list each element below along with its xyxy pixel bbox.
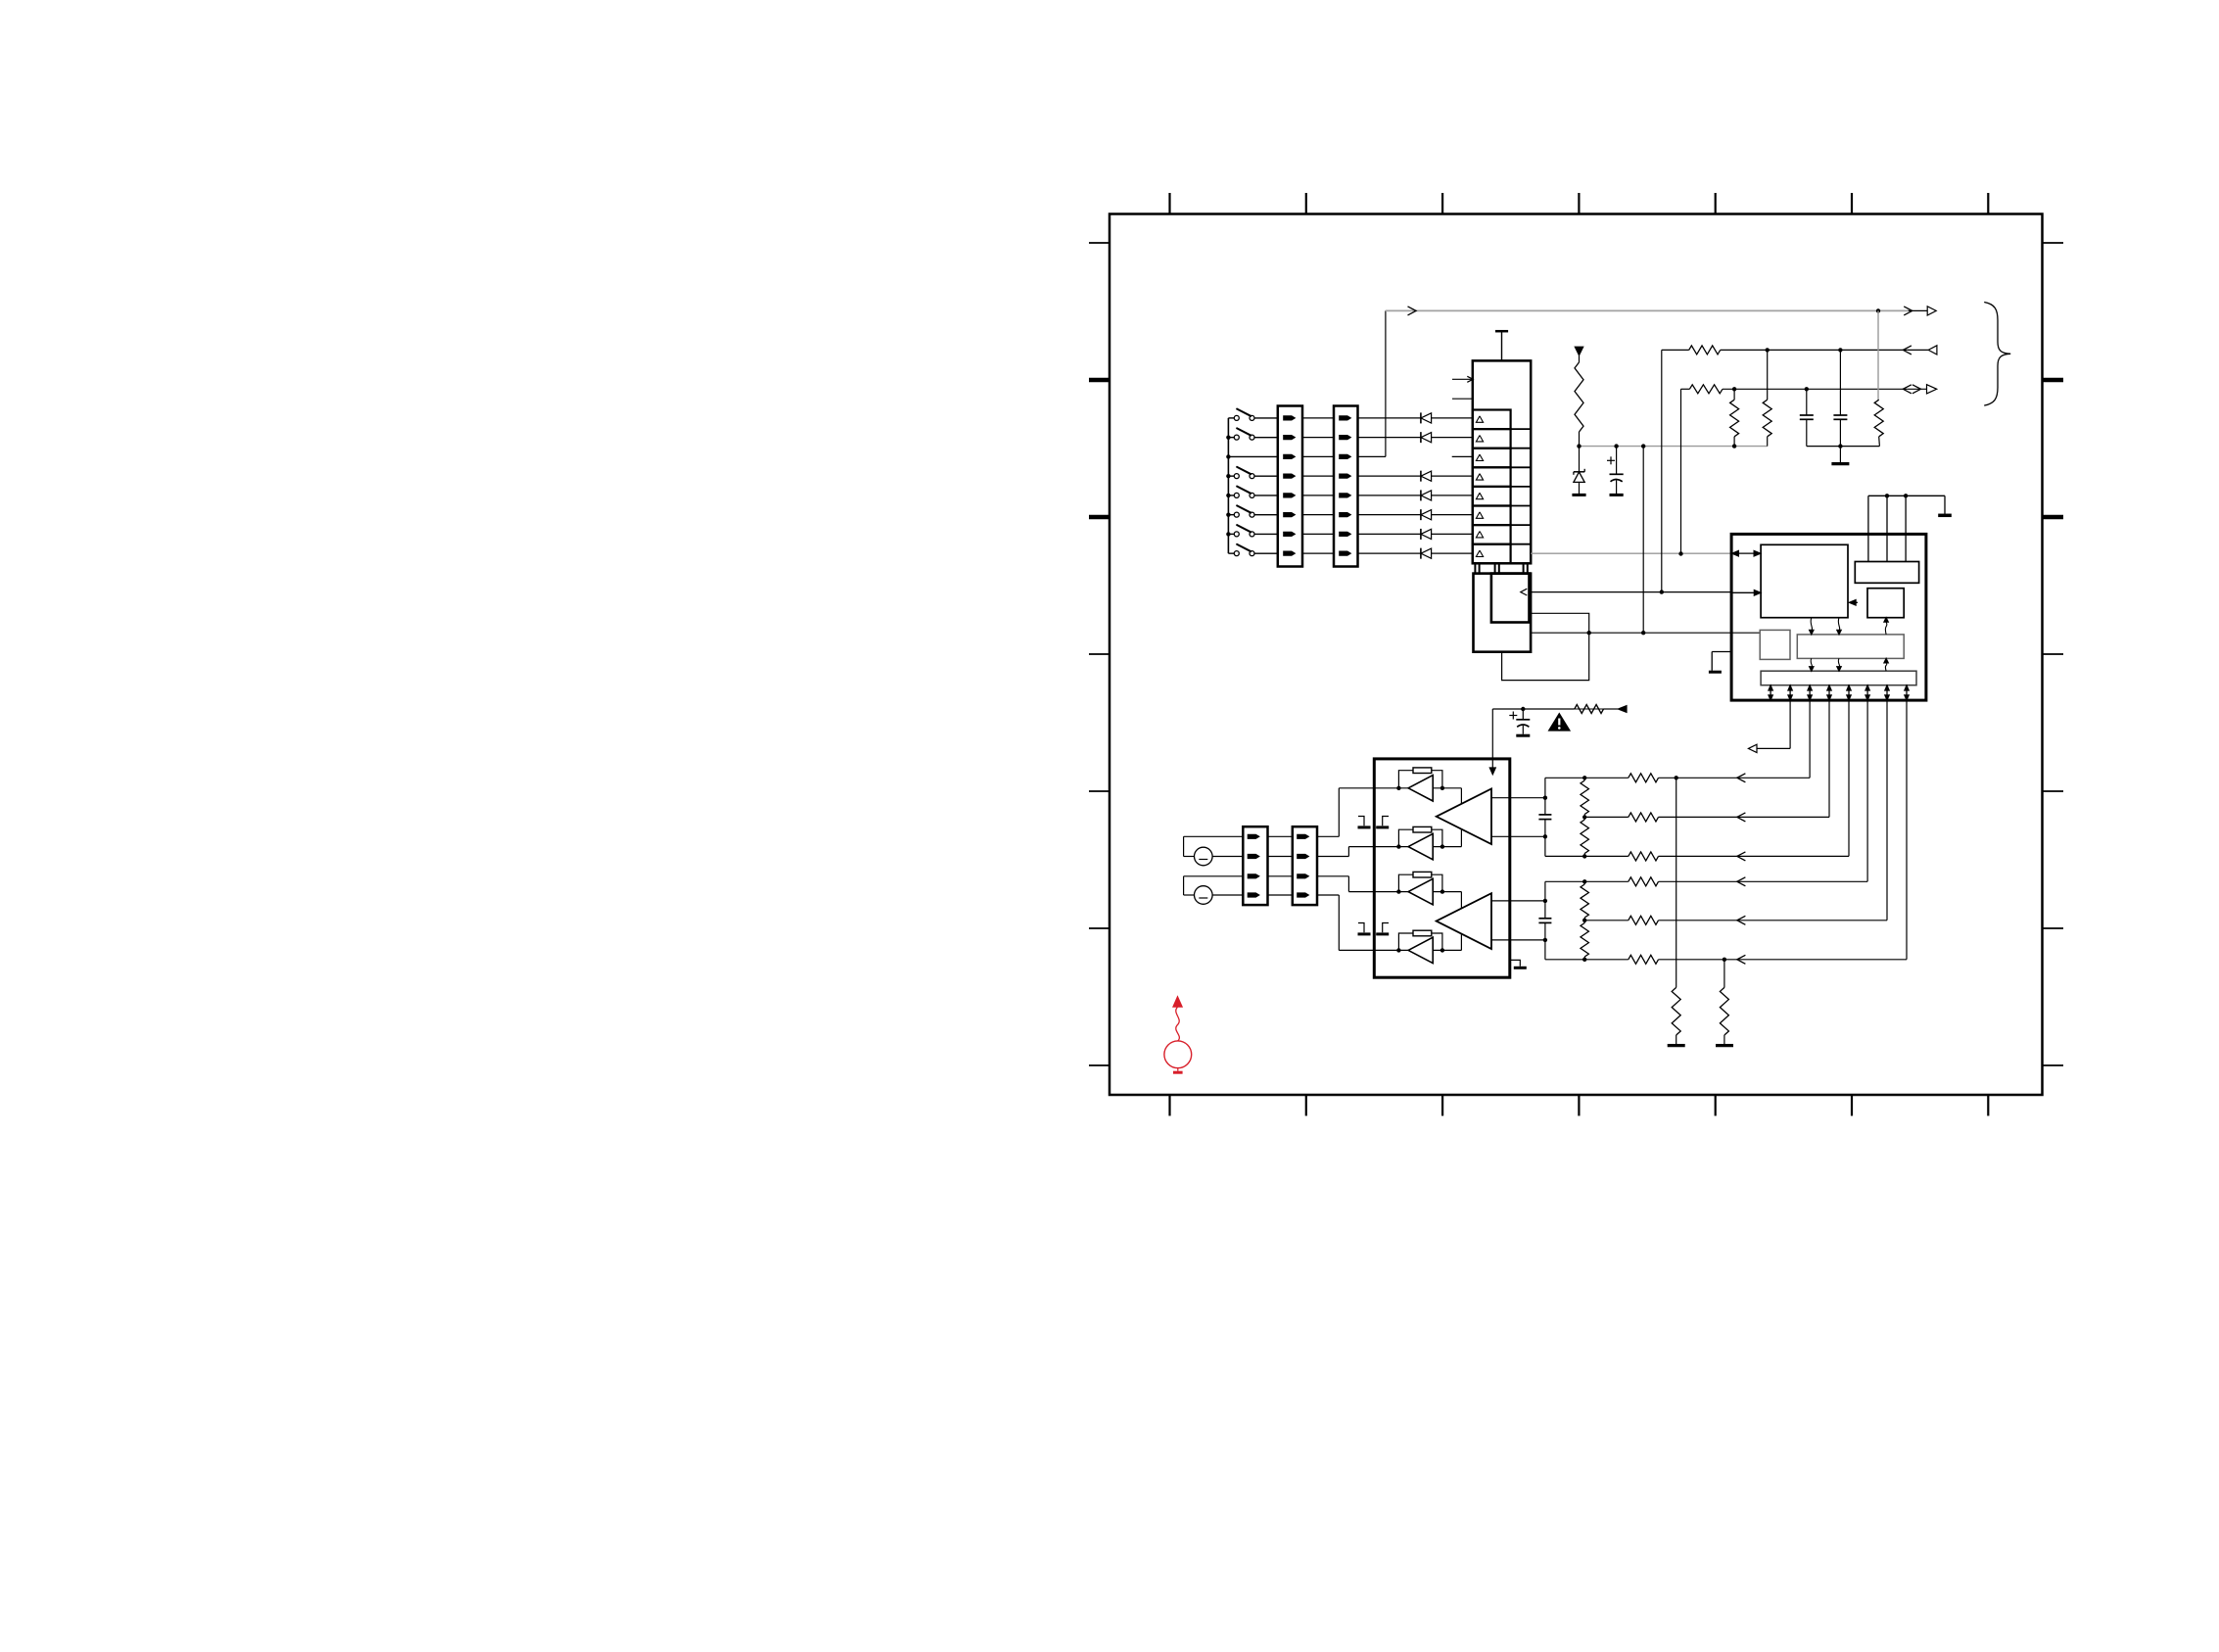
ground for C1 <box>1610 494 1624 496</box>
arrow supply source <box>1618 706 1627 713</box>
ground for D8 <box>1572 494 1585 496</box>
wire port7 drop <box>1886 700 1888 920</box>
wire amp out3 <box>1491 900 1545 902</box>
U3 top register block <box>1855 562 1918 584</box>
wire A1 out <box>1433 787 1461 789</box>
U3 port arrow 4 <box>1828 685 1830 700</box>
resistor R12 <box>1581 820 1588 854</box>
U1 right column cells <box>1510 410 1512 430</box>
resistor R15 <box>1629 774 1659 782</box>
U3 port arrow 1 <box>1770 685 1771 700</box>
brace off-page group <box>1984 303 2010 406</box>
U3 small block <box>1867 589 1904 618</box>
net L1 <box>1545 777 1629 779</box>
wire rc bank right <box>1807 446 1880 448</box>
U1 buffer cell 2 <box>1473 429 1511 448</box>
U1 buffer cell 6 <box>1473 506 1511 526</box>
U2 inner block <box>1491 574 1530 623</box>
U3 bottom block <box>1761 671 1916 685</box>
IC U4 outline <box>1374 759 1510 977</box>
wire row3 bus to connector <box>1228 455 1277 457</box>
IC U2 outline <box>1474 574 1532 652</box>
connector J3 <box>1243 826 1267 905</box>
ground C6 <box>1516 734 1530 737</box>
U1 buffer cell 8 <box>1473 544 1511 564</box>
wire port5 drop <box>1848 700 1850 856</box>
wire port8 drop <box>1906 700 1908 960</box>
connector J1 <box>1278 406 1302 567</box>
U1 buffer cell 3 <box>1473 448 1511 468</box>
resistor R1 <box>1579 355 1581 362</box>
wire port6 drop <box>1866 700 1868 881</box>
VS1 ground <box>1177 1068 1179 1071</box>
switch S5 <box>1228 514 1234 516</box>
wire line2 riser <box>1661 350 1663 591</box>
capacitor C6 <box>1522 709 1524 720</box>
signal ground e <box>1510 960 1521 966</box>
bus junction dots <box>1226 435 1230 439</box>
U1 row3 input stub <box>1452 455 1473 457</box>
wire U2 out C <box>1531 632 1760 634</box>
signal ground b <box>1383 817 1389 826</box>
U3 top pins <box>1867 496 1869 561</box>
U3 port arrow 2 <box>1789 685 1791 700</box>
diode D6 <box>1358 533 1421 535</box>
capacitor C4 <box>1544 778 1546 815</box>
ground R22 <box>1716 1044 1733 1047</box>
op-amp A6 <box>1437 893 1491 949</box>
U3 cpu block <box>1761 544 1848 617</box>
U3 port arrow 5 <box>1848 685 1850 700</box>
wire net riser to line1 <box>1385 310 1387 456</box>
resistor R11 <box>1581 780 1588 815</box>
node B junction <box>1660 590 1664 593</box>
wire A3 out <box>1433 891 1461 893</box>
U1 buffer cell 4 <box>1473 467 1511 487</box>
IC U1 outline <box>1473 360 1531 563</box>
U1 buffer cell 7 <box>1473 525 1511 544</box>
wire U1 row8 to U3 <box>1531 552 1731 554</box>
antenna squiggle <box>1176 1007 1180 1041</box>
U3 arrow cpu-mid a <box>1811 618 1812 631</box>
U3 left block <box>1760 630 1790 659</box>
diode D5 <box>1358 514 1421 516</box>
net L2 <box>1584 816 1629 818</box>
U3 port arrow 3 <box>1809 685 1811 700</box>
node C2 <box>1641 631 1645 635</box>
net L5 <box>1584 920 1629 921</box>
source V1 <box>1195 847 1213 866</box>
diode D3 <box>1358 475 1421 477</box>
signal ground a <box>1358 817 1364 826</box>
resistor R20 <box>1629 955 1659 964</box>
switch S2 <box>1228 437 1234 439</box>
U3 arrow input B <box>1731 591 1755 593</box>
op-amp A2 <box>1408 833 1433 859</box>
signal ground c <box>1358 923 1364 933</box>
ground U3 top <box>1938 514 1952 518</box>
power arrow into R1 <box>1575 347 1582 355</box>
U3 arrow mid-bot a <box>1811 658 1812 667</box>
wire A4 out <box>1433 949 1461 951</box>
wire U3 left ground <box>1712 651 1731 653</box>
net line3 <box>1681 388 1690 390</box>
wire U2 loop <box>1502 613 1589 680</box>
diode D4 <box>1358 495 1421 496</box>
U3 middle block <box>1797 635 1904 659</box>
U3 arrow mid-bot b <box>1838 658 1839 667</box>
signal ground d <box>1383 923 1389 933</box>
resistor R21 <box>1676 778 1677 987</box>
U3 arrow mid-small <box>1885 622 1886 635</box>
capacitor C3 <box>1839 350 1841 415</box>
switch S3 <box>1228 475 1234 477</box>
ground R21 <box>1668 1044 1685 1047</box>
U3 port arrow 7 <box>1886 685 1888 700</box>
connector J4 <box>1293 826 1317 905</box>
net L6 <box>1545 959 1629 961</box>
wire A2 out <box>1433 846 1461 848</box>
resistor R4 <box>1733 389 1735 400</box>
resistor R16 <box>1629 813 1659 822</box>
ground rc bank <box>1839 447 1841 462</box>
resistor R19 <box>1629 916 1659 924</box>
wire port3 drop <box>1809 700 1811 778</box>
source V2 <box>1195 886 1213 905</box>
switch S6 <box>1228 533 1234 535</box>
antenna arrow <box>1173 997 1183 1008</box>
wire amp supply <box>1492 708 1575 710</box>
U3 bidir arrow <box>1738 552 1755 554</box>
resistor R14 <box>1581 923 1588 958</box>
node C1 <box>1587 631 1591 635</box>
resistor R10 <box>1398 933 1413 950</box>
resistor R9 <box>1398 874 1413 891</box>
U1 buffer cell 5 <box>1473 487 1511 506</box>
zener D8 <box>1579 447 1581 472</box>
wire U3 top to ground <box>1868 495 1945 496</box>
capacitor C5 <box>1544 881 1546 919</box>
wire port4 drop <box>1828 700 1830 817</box>
ground U3 left <box>1709 671 1722 674</box>
wire port2 ctrl <box>1789 700 1791 748</box>
U3 port arrow 6 <box>1866 685 1868 700</box>
resistor R13 <box>1581 884 1588 918</box>
wire input route 4 <box>1317 894 1339 896</box>
wire switch input bus <box>1227 418 1229 553</box>
U3 arrow bot-mid <box>1885 662 1886 671</box>
wire amp out4 <box>1491 939 1545 941</box>
resistor R5 <box>1767 350 1769 400</box>
capacitor C2 <box>1806 389 1808 415</box>
power bar above U1 <box>1495 330 1508 333</box>
wire row3 to net stub <box>1358 455 1386 457</box>
U1 buffer cell 1 <box>1473 410 1511 430</box>
warning symbol <box>1549 714 1570 731</box>
resistor R3 <box>1689 385 1723 394</box>
resistor R7 <box>1398 771 1413 788</box>
diode D2 <box>1358 437 1421 439</box>
resistor R22 <box>1723 960 1725 988</box>
net line1 <box>1386 309 1909 311</box>
resistor R6 <box>1877 310 1879 400</box>
resistor R23 <box>1575 705 1604 714</box>
U3 arrow cpu-mid b <box>1838 618 1839 631</box>
op-amp A1 <box>1408 776 1433 801</box>
wire vref rail <box>1580 446 1768 448</box>
wire line3 riser <box>1680 389 1682 553</box>
capacitor C1 <box>1616 447 1618 475</box>
U3 port arrow 8 <box>1906 685 1908 700</box>
diode D1 <box>1358 417 1421 419</box>
resistor R2 <box>1689 346 1721 354</box>
IC U3 outline <box>1731 534 1926 700</box>
U2 neck tabs <box>1475 563 1479 573</box>
diode D7 <box>1358 552 1421 554</box>
op-amp A5 <box>1437 789 1491 845</box>
op-amp A4 <box>1408 937 1433 963</box>
wires J1 to J2 <box>1302 417 1334 419</box>
net line2 <box>1662 349 1689 351</box>
resistor R17 <box>1629 852 1659 861</box>
resistor R8 <box>1398 829 1413 846</box>
switch S7 <box>1228 552 1234 554</box>
switch S1 <box>1228 417 1234 419</box>
wire input route 3 <box>1317 875 1348 877</box>
switch S4 <box>1228 495 1234 496</box>
net L4 <box>1545 880 1629 882</box>
wire input route 1 <box>1317 835 1339 837</box>
wire amp out2 <box>1491 835 1545 837</box>
source VS1 <box>1164 1041 1192 1068</box>
U1 input stub 2 <box>1452 398 1473 400</box>
wire vref to C node <box>1642 447 1644 634</box>
U1 clock input stub <box>1452 378 1473 380</box>
net L3 <box>1545 855 1629 857</box>
wire U2 out B <box>1531 591 1731 593</box>
connector J2 <box>1334 406 1358 567</box>
op-amp A3 <box>1408 878 1433 904</box>
wire input route 2 <box>1317 856 1348 858</box>
wire amp out1 <box>1491 797 1545 799</box>
U3 arrow small-to-cpu <box>1852 601 1859 603</box>
resistor R18 <box>1629 877 1659 886</box>
wires J3 to J4 <box>1268 835 1293 837</box>
